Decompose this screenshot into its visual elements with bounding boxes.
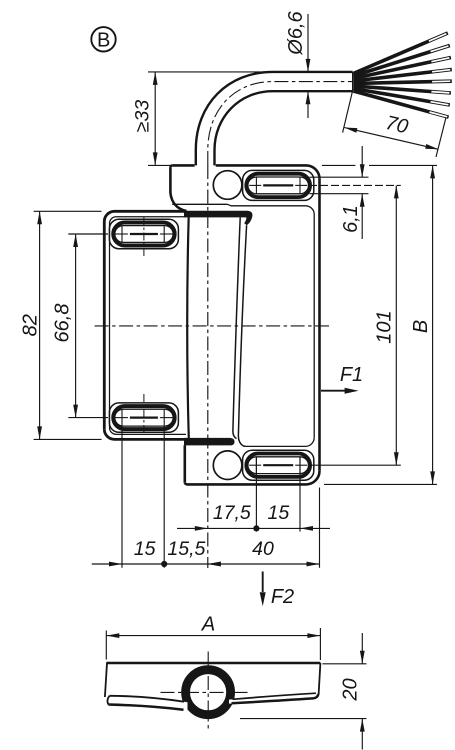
dimension 66,8 extension lines bbox=[68, 233, 108, 235]
wire 6 bbox=[353, 86, 451, 93]
bottom view right blade bbox=[229, 693, 318, 703]
bottom view knuckle ring bbox=[186, 670, 231, 715]
dimension 82 bbox=[39, 211, 41, 439]
right wing upper slot centerline bbox=[249, 184, 261, 186]
force label F2 bbox=[262, 572, 264, 593]
bottom view left blade bbox=[107, 696, 187, 712]
right wing upper slot hole bbox=[248, 177, 309, 194]
leaf face edge pair right line bbox=[238, 225, 246, 446]
wire 7 bbox=[353, 89, 450, 106]
svg-text:15: 15 bbox=[268, 502, 290, 524]
bottom view right edge bbox=[319, 663, 321, 695]
svg-text:66,8: 66,8 bbox=[52, 304, 74, 343]
dimension 101 extension lines bbox=[309, 184, 401, 186]
svg-text:6,1: 6,1 bbox=[340, 205, 362, 233]
left wing lower slot arc-center ticks bbox=[121, 409, 123, 425]
svg-text:F2: F2 bbox=[271, 586, 294, 608]
leaf face edge pair left line bbox=[233, 217, 240, 438]
svg-text:82: 82 bbox=[20, 314, 42, 336]
wire 2 bbox=[353, 46, 450, 77]
hinge right wing right edge bbox=[318, 179, 321, 471]
cable outer (top-left) edge bbox=[196, 72, 353, 165]
right wing lower slot arc-center ticks bbox=[255, 457, 257, 473]
svg-text:F1: F1 bbox=[340, 364, 363, 386]
wire 8 bbox=[353, 91, 448, 117]
wire 3 bbox=[353, 58, 451, 79]
bottom view top edge bbox=[106, 662, 320, 664]
left wing upper slot centerline bbox=[115, 233, 128, 235]
right wing lower slot hole bbox=[248, 457, 309, 474]
left wing lower slot thick ring bbox=[113, 406, 175, 429]
bottom gap band between sections bbox=[184, 438, 234, 446]
hinge right wing top edge bbox=[172, 164, 194, 167]
dimension >=33 bbox=[154, 72, 156, 165]
wire 5 bbox=[353, 81, 452, 83]
extension lines below body bbox=[255, 457, 257, 532]
dimension B extension lines bbox=[322, 164, 355, 166]
svg-text:B: B bbox=[410, 320, 432, 333]
upper knuckle hole circle bbox=[213, 171, 242, 200]
hinge right wing bottom-right corner bbox=[307, 471, 320, 485]
left wing upper slot arc-center ticks bbox=[121, 226, 123, 242]
svg-text:≥33: ≥33 bbox=[131, 100, 153, 133]
left wing lower slot hole bbox=[115, 409, 173, 426]
inner right line of leaf bbox=[313, 214, 315, 438]
dimension 66,8 bbox=[75, 234, 77, 418]
left wing upper slot thick ring bbox=[113, 223, 175, 246]
left wing upper slot hole bbox=[115, 226, 173, 243]
top knuckle section left edge bbox=[170, 165, 172, 167]
horizontal centerline bbox=[95, 325, 329, 327]
left wing lower slot outer ring bbox=[109, 403, 178, 432]
dimension 17,5 bbox=[177, 527, 208, 529]
svg-text:40: 40 bbox=[252, 538, 274, 560]
dimension 40 bbox=[208, 563, 320, 565]
right wing upper slot outer ring bbox=[243, 170, 314, 200]
lower knuckle hole circle bbox=[213, 451, 242, 480]
dimension A extension lines bbox=[105, 631, 107, 660]
svg-text:A: A bbox=[201, 614, 215, 636]
dimension 15,5 bbox=[164, 563, 208, 565]
svg-text:15: 15 bbox=[134, 538, 156, 560]
right wing upper slot thick ring bbox=[246, 174, 310, 197]
dimension 20 extension lines bbox=[323, 663, 367, 665]
svg-text:B: B bbox=[97, 30, 110, 52]
svg-text:15,5: 15,5 bbox=[167, 538, 205, 560]
vertical centerline bbox=[207, 165, 209, 568]
dimension B bbox=[432, 165, 434, 484]
right wing lower slot thick ring bbox=[246, 454, 310, 477]
wire 4 bbox=[353, 70, 452, 82]
top junction thin line bbox=[172, 203, 227, 205]
view label B circle bbox=[91, 27, 115, 51]
dimension 20 bbox=[361, 633, 363, 664]
svg-text:101: 101 bbox=[374, 310, 396, 343]
cable inner (bottom-right) edge bbox=[215, 91, 353, 165]
dimension 70 bbox=[344, 128, 438, 150]
bottom junction thin line bbox=[246, 445, 306, 447]
left wing inner outline bbox=[110, 217, 187, 435]
cable centerline bbox=[208, 82, 353, 165]
dimension 6,1 extension lines bbox=[310, 176, 369, 178]
svg-text:20: 20 bbox=[340, 678, 362, 701]
dimension 15 (right slot) bbox=[256, 527, 300, 529]
left wing lower slot centerline bbox=[115, 417, 128, 419]
cable end cap bbox=[352, 72, 354, 91]
right leaf curved left edge bbox=[187, 212, 189, 439]
left wing left edge bbox=[104, 211, 114, 221]
hinge right wing top-right corner bbox=[307, 165, 320, 179]
bottom view left edge bbox=[105, 663, 107, 697]
dimension 82 extension lines bbox=[34, 210, 102, 212]
bottom view centerlines bbox=[161, 691, 248, 693]
wire 1 bbox=[353, 33, 448, 74]
svg-text:Ø6,6: Ø6,6 bbox=[285, 10, 307, 55]
dimension 15 (left slot) bbox=[92, 563, 122, 565]
hinge right wing bottom edge bbox=[187, 483, 307, 486]
bottom knuckle section left edge bbox=[184, 445, 187, 482]
right wing upper slot arc-center ticks bbox=[255, 177, 257, 193]
dimension diameter 6,6 bbox=[307, 14, 309, 72]
dimension 6,1 bbox=[361, 146, 363, 177]
left wing top edge bbox=[115, 210, 187, 213]
left slots vertical centerline dashes bbox=[143, 217, 145, 258]
dimension 70 extension lines bbox=[343, 91, 353, 133]
dimension >=33 extension lines bbox=[148, 71, 274, 73]
right wing lower slot centerline bbox=[249, 464, 261, 466]
dimension A bbox=[106, 635, 320, 637]
force label F1 bbox=[321, 390, 346, 392]
left wing bottom edge bbox=[115, 438, 231, 441]
svg-text:17,5: 17,5 bbox=[213, 502, 251, 524]
left wing upper slot outer ring bbox=[109, 219, 178, 248]
right wing lower slot outer ring bbox=[243, 450, 314, 480]
dimension 101 bbox=[395, 185, 397, 465]
top gap band between sections bbox=[184, 211, 252, 226]
